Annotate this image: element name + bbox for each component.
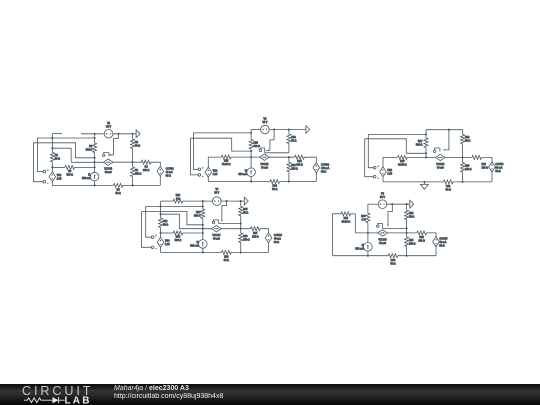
voltage source V2	[261, 125, 270, 134]
node jog 3	[448, 129, 450, 131]
svg-text:500 mA: 500 mA	[355, 247, 364, 250]
ccvs CCVS5	[433, 237, 440, 247]
resistor R29	[222, 250, 232, 254]
resistor R22	[462, 157, 464, 162]
node R10 a	[250, 132, 252, 134]
svg-text:500 mA: 500 mA	[82, 177, 91, 180]
svg-text:50 V: 50 V	[262, 121, 267, 124]
resistor R15	[295, 155, 305, 159]
vccs VCCS3	[436, 154, 446, 160]
svg-text:50 Ω: 50 Ω	[465, 140, 470, 143]
resistor R18	[462, 130, 464, 135]
svg-text:50 Ω: 50 Ω	[390, 262, 395, 265]
wire V2 right	[269, 129, 306, 131]
resistor R1	[132, 134, 134, 139]
node top-R3	[94, 133, 96, 135]
wire mid left 4	[179, 228, 211, 230]
wire bottom rail 5 right	[398, 255, 436, 257]
current source I4	[199, 240, 208, 249]
vcvs VB1	[49, 172, 56, 182]
wire bottom rail 4 right	[231, 251, 268, 253]
terminal sense1 c4	[151, 236, 154, 239]
wire V3 to output	[221, 200, 244, 202]
wire sense left outer 4	[142, 211, 152, 247]
svg-text:40 mS: 40 mS	[105, 171, 112, 174]
vccs VCCS5	[378, 230, 388, 236]
probe bracket	[104, 153, 109, 157]
svg-text:500 Ω: 500 Ω	[86, 148, 93, 151]
wire R34 left	[333, 214, 341, 256]
node R18 bottom	[462, 156, 464, 158]
wire CCVS1 bottom	[159, 176, 161, 186]
node R10 c	[250, 156, 252, 158]
wire bottom rail right	[123, 184, 160, 186]
current source I5	[364, 243, 373, 252]
bottom rail 5	[333, 255, 389, 257]
svg-text:500 Ω: 500 Ω	[416, 143, 423, 146]
node I2 bottom	[250, 181, 252, 183]
svg-text:50 V: 50 V	[214, 192, 219, 195]
svg-text:50 Ω: 50 Ω	[163, 223, 168, 226]
svg-text:50 Ω: 50 Ω	[274, 241, 279, 244]
ccvs CCVS4	[265, 233, 272, 243]
resistor R14	[270, 180, 280, 184]
probe arrow	[109, 154, 113, 156]
node hookH-R33	[406, 227, 408, 229]
wire top rail 4 left	[161, 200, 174, 202]
wire sense C	[52, 148, 71, 162]
wire CCVS3 bottom	[491, 172, 493, 182]
svg-text:50 Ω: 50 Ω	[243, 212, 248, 215]
svg-text:33.33 Ω: 33.33 Ω	[222, 163, 231, 166]
svg-text:200 Ω: 200 Ω	[482, 167, 489, 170]
resistor R4	[141, 160, 151, 164]
wire V4 left	[368, 203, 378, 205]
svg-text:50 Ω: 50 Ω	[409, 216, 414, 219]
wire jog to probe 4	[222, 201, 227, 220]
svg-text:50 Ω: 50 Ω	[439, 245, 444, 248]
voltage source V3	[213, 197, 222, 206]
resistor R17	[425, 130, 427, 138]
wire R34 right corner	[354, 214, 356, 233]
bottom rail 4 with R29	[161, 251, 222, 253]
wire sense B3	[365, 139, 426, 154]
svg-text:33.33 Ω: 33.33 Ω	[398, 164, 407, 167]
ccvs CCVS1	[157, 166, 164, 176]
wire sense B2	[191, 138, 252, 151]
wire VB3 bottom	[382, 176, 384, 182]
wire sense left inner 4	[146, 206, 152, 237]
output flag 4	[244, 197, 248, 205]
wire R27 to CCVS4	[260, 229, 268, 233]
wire sense B	[33, 143, 94, 158]
wire sense A4	[146, 205, 203, 207]
node sense A42	[202, 205, 204, 207]
node sense B4	[202, 224, 204, 226]
svg-text:500 Ω: 500 Ω	[175, 239, 182, 242]
resistor R16	[221, 155, 231, 159]
svg-text:200 Ω: 200 Ω	[252, 236, 259, 239]
probe arrow 5	[387, 225, 389, 227]
svg-text:1.25: 1.25	[165, 243, 170, 246]
resistor R35	[406, 233, 408, 237]
svg-text:50 Ω: 50 Ω	[116, 192, 121, 195]
resistor R30 wire	[161, 232, 174, 234]
svg-text:1.25: 1.25	[213, 173, 218, 176]
probe bracket 3	[435, 148, 440, 152]
svg-text:500 mA: 500 mA	[190, 245, 199, 248]
probe bracket 2	[260, 148, 264, 153]
wire R36 to CCVS5	[426, 233, 436, 237]
wire sense A	[38, 137, 95, 139]
node R33 bottom	[406, 232, 408, 234]
svg-text:200 Ω: 200 Ω	[143, 169, 150, 172]
terminal sense1 c2	[198, 168, 201, 171]
svg-text:40 mS: 40 mS	[213, 238, 220, 241]
wire sense left inner 3	[368, 134, 373, 167]
node R25 top	[240, 200, 242, 202]
terminal sense2 c2	[198, 174, 201, 177]
svg-text:50 Ω: 50 Ω	[224, 259, 229, 262]
resistor R26	[240, 229, 242, 233]
svg-text:50 Ω: 50 Ω	[321, 171, 326, 174]
resistor R24 branch	[202, 201, 204, 209]
node jog 5	[391, 203, 393, 205]
resistor R25	[240, 201, 242, 206]
voltage source V1	[104, 130, 113, 139]
node R1 top	[131, 133, 133, 135]
svg-text:50 Ω: 50 Ω	[272, 188, 277, 191]
svg-text:500 mA: 500 mA	[239, 173, 248, 176]
current source I1	[90, 172, 99, 181]
wire jog to probe 3	[445, 130, 449, 150]
svg-text:250 Ω: 250 Ω	[291, 168, 298, 171]
node R3b bottom	[131, 184, 133, 186]
node top-R24	[202, 200, 204, 202]
node R40 bottom	[367, 232, 369, 234]
svg-text:500 Ω: 500 Ω	[254, 145, 261, 148]
wire CCVS4 bottom	[268, 243, 270, 253]
resistor R13	[288, 130, 290, 134]
svg-text:0 Ω: 0 Ω	[362, 219, 366, 222]
wire CCVS2 bottom	[315, 172, 317, 182]
wire sense A3	[368, 133, 426, 135]
probe bracket 4	[214, 220, 219, 224]
node jog 4	[226, 200, 228, 202]
bottom rail 2	[208, 181, 270, 183]
wire mid right 5	[387, 232, 417, 234]
wire far-left loop 5	[351, 213, 356, 215]
wire mid rail 2	[269, 156, 295, 158]
node R17 b	[425, 152, 427, 154]
svg-text:40 mS: 40 mS	[261, 166, 268, 169]
resistor R2 branch	[51, 134, 53, 153]
output flag	[136, 130, 140, 138]
svg-text:50 Ω: 50 Ω	[166, 174, 171, 177]
probe terminal 5	[377, 225, 379, 227]
probe arrow 4	[221, 220, 223, 222]
wire VB2 bottom	[207, 177, 209, 182]
node I4 bottom	[202, 251, 204, 253]
resistor R37	[388, 254, 398, 258]
wire sense C4	[161, 214, 180, 229]
resistor R27	[251, 227, 261, 231]
svg-text:250 Ω: 250 Ω	[409, 242, 416, 245]
node mid left	[94, 161, 96, 163]
node R30 right	[202, 232, 204, 234]
probe terminal 3	[434, 150, 436, 152]
probe bracket 5	[378, 223, 383, 228]
wire probe to R25 branch	[219, 223, 241, 225]
svg-text:50 V: 50 V	[380, 196, 385, 199]
probe arrow 2	[266, 149, 268, 151]
node R10 b	[250, 150, 252, 152]
wire I4 bottom	[202, 248, 204, 252]
svg-text:250 Ω: 250 Ω	[465, 168, 472, 171]
svg-text:50 V: 50 V	[106, 126, 111, 129]
svg-text:500 Ω: 500 Ω	[194, 214, 201, 217]
probe arrow 3	[443, 149, 445, 151]
svg-text:50 Ω: 50 Ω	[135, 144, 140, 147]
svg-text:33.33 Ω: 33.33 Ω	[342, 221, 351, 224]
resistor R33	[406, 204, 408, 210]
node R12 bottom	[288, 181, 290, 183]
svg-text:50 Ω: 50 Ω	[446, 188, 451, 191]
node R1 bottom	[131, 161, 133, 163]
svg-text:LAB: LAB	[65, 395, 92, 405]
wire mid right 4	[221, 228, 250, 230]
wire VB4 bottom	[160, 247, 162, 252]
node sense B	[94, 157, 96, 159]
resistor R21	[443, 180, 453, 184]
resistor R28 branch	[160, 201, 162, 218]
svg-text:250 Ω: 250 Ω	[243, 238, 250, 241]
resistor R10 branch	[250, 130, 252, 140]
svg-text:250 Ω: 250 Ω	[135, 172, 142, 175]
wire VB3 top	[383, 157, 398, 167]
resistor R5	[113, 183, 123, 187]
vcvs VB3	[380, 167, 387, 177]
wire mid rail 3	[445, 156, 472, 158]
svg-text:40 mS: 40 mS	[379, 242, 386, 245]
node I1 bottom	[94, 184, 96, 186]
vccs VCCS1	[103, 159, 113, 165]
wire sense left outer	[33, 143, 43, 182]
footer logo	[0, 382, 110, 405]
wire top rail 3	[426, 129, 463, 131]
node sense C4	[160, 213, 162, 215]
resistor R3 branch	[94, 134, 96, 143]
wire I5 bottom	[367, 251, 369, 256]
wire VB1 bottom	[51, 181, 53, 185]
node gnd 3	[423, 181, 425, 183]
node R17 c	[425, 156, 427, 158]
terminal sense1 c3	[373, 166, 376, 169]
node sense A41	[160, 205, 162, 207]
node jog	[117, 133, 119, 135]
wire R13 to probe	[265, 152, 289, 154]
svg-text:50 Ω: 50 Ω	[55, 158, 60, 161]
node hookH-R25	[240, 223, 242, 225]
wire jog to probe 5	[388, 204, 392, 225]
vcvs VB2	[205, 167, 212, 177]
wire R4 to CCVS1	[151, 162, 160, 167]
node mid left 4	[202, 228, 204, 230]
svg-text:0 Ω: 0 Ω	[176, 198, 180, 201]
wire mid left	[71, 161, 103, 163]
resistor R3b 250	[132, 162, 134, 167]
probe terminal 2	[259, 149, 261, 151]
wire sense B4	[142, 211, 203, 224]
node R22 bottom	[462, 181, 464, 183]
voltage source V4	[378, 200, 387, 209]
resistor R8 wire	[52, 166, 65, 168]
node I5 bottom	[367, 255, 369, 257]
ccvs CCVS2	[313, 163, 320, 173]
wire top rail	[81, 133, 104, 135]
svg-text:50 Ω: 50 Ω	[291, 139, 296, 142]
wire jog to probe 2	[270, 130, 274, 151]
svg-text:50 Ω: 50 Ω	[495, 170, 500, 173]
probe terminal	[103, 154, 105, 156]
wire V2 left	[251, 129, 261, 131]
svg-text:1.25: 1.25	[57, 177, 62, 180]
wire V1 to output	[113, 133, 136, 135]
wire probe to R33 branch	[382, 227, 406, 229]
svg-text:500 Ω: 500 Ω	[66, 174, 73, 177]
ccvs CCVS3	[489, 162, 496, 172]
wire sense left inner 2	[193, 133, 198, 169]
ground	[423, 182, 425, 185]
node R13 top	[288, 128, 290, 130]
resistor R34	[341, 212, 351, 216]
resistor R12	[288, 157, 290, 162]
wire sense A2	[193, 132, 251, 134]
output flag 5	[410, 200, 414, 208]
svg-text:200 Ω: 200 Ω	[418, 240, 425, 243]
wire sense left outer 3	[365, 139, 374, 177]
bottom rail with R5	[52, 184, 113, 186]
wire CCVS5 bottom	[435, 246, 437, 256]
vccs VCCS4	[212, 226, 222, 232]
svg-text:200 Ω: 200 Ω	[296, 164, 303, 167]
wire I1 bottom	[94, 181, 96, 186]
wire jog to probe	[114, 134, 119, 155]
node R30 left	[160, 232, 162, 234]
node sense C	[51, 147, 53, 149]
wire mid right	[113, 161, 141, 163]
terminal sense2	[43, 180, 46, 183]
resistor R20	[472, 155, 482, 159]
resistor R23	[173, 199, 183, 203]
svg-text:40 mS: 40 mS	[437, 166, 444, 169]
wire I2 bottom	[250, 177, 252, 182]
node R33 top	[406, 203, 408, 205]
vcvs VB4	[157, 237, 164, 247]
terminal sense2 c4	[151, 246, 154, 249]
node R8 right	[94, 166, 96, 168]
terminal sense1	[43, 170, 46, 173]
node sense A2	[94, 137, 96, 139]
vccs VCCS2	[260, 154, 270, 160]
probe terminal 4	[212, 221, 214, 223]
wire sense left outer 2	[191, 138, 198, 175]
bottom rail 3	[383, 181, 443, 183]
wire VB2 top	[208, 157, 221, 168]
node R12 top	[288, 156, 290, 158]
node R8 left	[51, 166, 53, 168]
node jog 2	[273, 128, 275, 130]
terminal sense2 c3	[373, 175, 376, 178]
node R25 bottom	[240, 228, 242, 230]
wire top stub	[52, 133, 62, 135]
output flag 2	[306, 126, 310, 134]
current source I2	[247, 168, 256, 177]
wire mid left 5	[355, 232, 377, 234]
node sense A1	[51, 137, 53, 139]
wire V4 right	[387, 203, 410, 205]
node R35 bottom	[406, 255, 408, 257]
resistor R19	[398, 155, 408, 159]
svg-text:1.25: 1.25	[387, 172, 392, 175]
wire sense left inner	[38, 138, 44, 172]
node R26 bottom	[240, 251, 242, 253]
resistor R36	[417, 231, 427, 235]
node R17 a	[425, 133, 427, 135]
resistor R40 branch	[367, 204, 369, 213]
